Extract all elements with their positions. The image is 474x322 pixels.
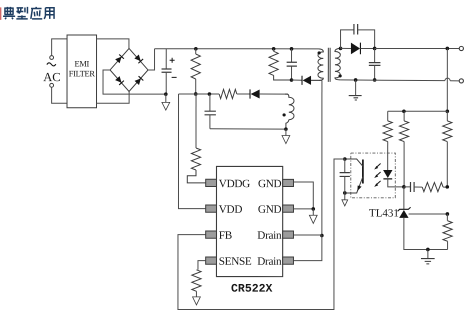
pin right 4 bbox=[283, 257, 294, 264]
resistor R4 clamp bbox=[273, 49, 275, 52]
pin left 1 bbox=[206, 179, 217, 186]
title text 典型应用 bbox=[3, 7, 54, 19]
svg-text:CR522X: CR522X bbox=[231, 283, 273, 296]
wire bridge negative to ground rail bbox=[103, 70, 166, 94]
wire VDD riser to VDD pin bbox=[178, 94, 205, 209]
primary polarity dot bbox=[318, 51, 321, 54]
wire snubber loop right bbox=[358, 30, 375, 49]
node secondary top bbox=[339, 47, 343, 51]
pin left 3 bbox=[206, 231, 217, 238]
wire drain riser bbox=[321, 80, 323, 235]
wire hop over divider feed bbox=[445, 78, 450, 81]
diode D6 clamp bbox=[301, 76, 303, 85]
svg-text:VDDG: VDDG bbox=[219, 178, 250, 190]
svg-text:Drain: Drain bbox=[257, 230, 282, 242]
ground primary (aux) bbox=[285, 129, 287, 135]
capacitor C4 snubber bbox=[353, 24, 355, 34]
node anode ground branch bbox=[426, 248, 430, 252]
wire output+ rail bbox=[375, 47, 460, 49]
aux winding bottom lead bbox=[286, 120, 289, 130]
wire secondary ground rail bbox=[340, 79, 445, 82]
diode D5 aux rectifier bbox=[249, 89, 251, 98]
capacitor C5 output bbox=[374, 48, 376, 62]
optocoupler U2 dashed box bbox=[351, 153, 396, 198]
node startup R top bbox=[194, 47, 198, 51]
bulk cap polarity - label bbox=[172, 76, 177, 78]
wire clamp RC to diode bbox=[292, 79, 303, 81]
node aux ground bbox=[284, 127, 288, 131]
wire FB net bbox=[178, 159, 345, 310]
wire snubber loop left bbox=[341, 30, 354, 49]
svg-text:Drain: Drain bbox=[257, 256, 282, 268]
opto phototransistor bbox=[362, 160, 364, 184]
svg-text:TL431: TL431 bbox=[369, 207, 399, 219]
TL431 U3 shunt regulator bbox=[398, 207, 411, 211]
node output+ divider tap bbox=[446, 47, 450, 51]
node divider top right bbox=[446, 109, 450, 113]
wire B+ top rail bbox=[155, 48, 319, 50]
bridge diode D4 (bottom-right edge) bbox=[134, 76, 143, 85]
wire TL431 cathode bbox=[403, 187, 405, 210]
output terminal + bbox=[459, 46, 463, 50]
node GND join bbox=[311, 207, 315, 211]
wire aux diode to winding bbox=[260, 93, 288, 95]
capacitor C3 clamp bbox=[291, 49, 293, 62]
pin right 1 bbox=[283, 179, 294, 186]
node ref / divider mid bbox=[446, 212, 450, 216]
node VDD rail / R1 bbox=[194, 92, 198, 96]
aux polarity dot bbox=[283, 113, 286, 116]
wire GND pin2 bbox=[293, 208, 313, 210]
wire bulk cap top bbox=[165, 49, 167, 69]
svg-text:AC: AC bbox=[43, 70, 60, 84]
wire rail to output- bbox=[450, 80, 459, 82]
resistor R6 bias bbox=[403, 111, 405, 121]
wire secondary to diode bbox=[341, 47, 351, 49]
wire divider feed drop bbox=[446, 48, 448, 111]
capacitor C6 opto parallel bbox=[344, 159, 346, 173]
EMI filter box bbox=[67, 35, 97, 108]
bridge diode D3 (left-bottom edge) bbox=[115, 76, 124, 85]
bulk capacitor C1 bbox=[162, 68, 172, 70]
wire TL431 ref bbox=[409, 213, 448, 215]
wire opto LED cathode bbox=[388, 179, 404, 187]
wire drain pin2 bbox=[293, 236, 321, 261]
node clamp RC junction bbox=[290, 78, 294, 82]
node secondary ground branch bbox=[354, 78, 358, 82]
svg-text:EMI: EMI bbox=[75, 60, 90, 69]
resistor R3 aux series bbox=[219, 89, 237, 98]
ground primary (IC GND) bbox=[312, 209, 314, 215]
resistor R10 sense bbox=[192, 270, 201, 292]
node clamp R top bbox=[272, 47, 276, 51]
wire bulk cap bottom bbox=[165, 72, 167, 94]
bridge rectifier diamond bbox=[110, 48, 148, 91]
AC tilde symbol bbox=[47, 63, 56, 66]
svg-text:FILTER: FILTER bbox=[69, 69, 96, 78]
svg-text:VDD: VDD bbox=[219, 204, 243, 216]
pin right 3 bbox=[283, 231, 294, 238]
wire clamp diode to drain node bbox=[311, 79, 322, 81]
capacitor C2 VDD bbox=[209, 94, 211, 111]
transformer core bbox=[327, 48, 329, 82]
pin right 2 bbox=[283, 205, 294, 212]
wire diode to output node bbox=[360, 47, 374, 49]
wire AC top to EMI filter bbox=[52, 39, 67, 56]
opto light arrow 2 bbox=[376, 172, 380, 176]
wire VDD rail bbox=[179, 93, 220, 95]
node output cap top bbox=[373, 47, 377, 51]
wire SENSE pin bbox=[198, 261, 206, 270]
bridge diode D2 (top-right edge) bbox=[134, 54, 143, 63]
wire GND pin1 bbox=[293, 182, 313, 209]
node VDD cap bbox=[208, 92, 212, 96]
wire drain pin1 bbox=[293, 234, 321, 236]
transformer secondary winding bbox=[335, 48, 341, 80]
opto light arrow 1 bbox=[376, 163, 380, 167]
bulk cap polarity + label bbox=[170, 59, 175, 61]
bridge diode D1 (left-top edge) bbox=[115, 54, 124, 63]
node comp left bbox=[402, 185, 406, 189]
AC source terminal bottom bbox=[50, 83, 54, 87]
ground earth (TL431) bbox=[427, 249, 429, 258]
resistor R1 startup upper bbox=[195, 49, 197, 54]
resistor R9 divider lower bbox=[446, 214, 448, 221]
wire divider top line bbox=[388, 110, 448, 112]
svg-text:GND: GND bbox=[258, 178, 282, 190]
pin left 4 bbox=[206, 257, 217, 264]
wire bridge positive to B+ rail bbox=[148, 49, 155, 70]
node opto collector bbox=[343, 157, 347, 161]
pin left 2 bbox=[206, 205, 217, 212]
resistor R2 startup lower bbox=[195, 94, 197, 148]
node divider top mid bbox=[402, 109, 406, 113]
diode D7 output rectifier bbox=[351, 43, 360, 55]
svg-text:SENSE: SENSE bbox=[219, 256, 252, 268]
opto light arrow 3 bbox=[376, 181, 380, 185]
resistor R7 divider upper bbox=[446, 111, 448, 121]
ground primary (bulk cap) bbox=[165, 94, 167, 102]
secondary polarity dot bbox=[339, 74, 342, 77]
node clamp C top bbox=[290, 47, 294, 51]
resistor R5 opto feed bbox=[387, 111, 389, 121]
node opto emitter bbox=[343, 191, 347, 195]
wire EMI filter to bridge AC2 bbox=[97, 91, 130, 103]
op-chip U1 CR522X body bbox=[216, 166, 282, 276]
node output cap bottom bbox=[373, 78, 377, 82]
wire EMI filter to bridge AC1 bbox=[97, 39, 129, 49]
ground primary (sense) bbox=[193, 297, 201, 305]
wire TL431 anode rail bbox=[404, 218, 448, 250]
node drain junction bbox=[320, 234, 324, 238]
wire primary bottom corner bbox=[311, 79, 319, 81]
output terminal - bbox=[459, 79, 463, 83]
ground earth (secondary) bbox=[355, 80, 357, 95]
opto LED bbox=[383, 170, 392, 178]
transformer primary winding bbox=[318, 49, 323, 81]
node comp right bbox=[445, 185, 449, 189]
wire VDD cap bottom to aux ground bbox=[210, 128, 286, 130]
aux winding L1 bbox=[285, 94, 294, 120]
resistor R8 comp bbox=[414, 186, 422, 188]
node bulk cap / primary ground bbox=[164, 92, 168, 96]
ground primary (opto emitter) bbox=[344, 193, 346, 200]
capacitor C7 comp bbox=[404, 186, 411, 188]
wire AC bottom to EMI filter bbox=[52, 87, 67, 103]
svg-text:FB: FB bbox=[219, 230, 232, 242]
AC source terminal top bbox=[50, 56, 54, 60]
svg-text:GND: GND bbox=[258, 204, 282, 216]
red heading bar bbox=[0, 7, 1, 20]
